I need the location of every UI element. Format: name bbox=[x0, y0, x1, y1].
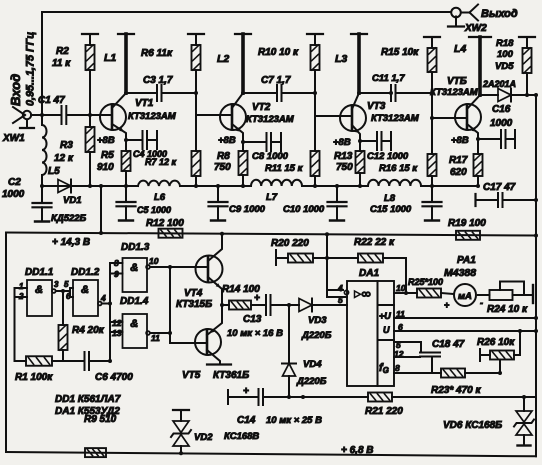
svg-text:VD6 КС168Б: VD6 КС168Б bbox=[443, 420, 502, 431]
svg-text:М4388: М4388 bbox=[444, 267, 476, 279]
svg-text:+: + bbox=[243, 386, 249, 397]
svg-text:КТ3123АМ: КТ3123АМ bbox=[128, 111, 177, 122]
svg-text:1: 1 bbox=[19, 282, 24, 291]
svg-text:R12 100: R12 100 bbox=[146, 218, 184, 229]
svg-text:XW1: XW1 bbox=[2, 133, 25, 144]
svg-text:R7 12 к: R7 12 к bbox=[145, 157, 177, 167]
svg-text:910: 910 bbox=[97, 162, 114, 173]
svg-text:VD5: VD5 bbox=[495, 61, 514, 72]
svg-text:R23* 470 к: R23* 470 к bbox=[431, 385, 481, 396]
svg-text:КТ3123АМ: КТ3123АМ bbox=[430, 87, 479, 98]
svg-text:R1 100к: R1 100к bbox=[15, 372, 53, 383]
svg-text:С13: С13 bbox=[243, 314, 262, 325]
svg-text:L8: L8 bbox=[384, 193, 396, 204]
svg-text:L3: L3 bbox=[335, 53, 347, 65]
svg-text:КТ315Б: КТ315Б bbox=[176, 299, 212, 310]
svg-text:4: 4 bbox=[100, 293, 106, 303]
svg-text:R25*100: R25*100 bbox=[408, 277, 443, 287]
svg-text:R26 10к: R26 10к bbox=[477, 337, 515, 348]
svg-text:С10 1000: С10 1000 bbox=[283, 204, 325, 215]
svg-text:КТ3123АМ: КТ3123АМ bbox=[246, 114, 295, 125]
svg-text:1000: 1000 bbox=[2, 189, 25, 200]
svg-text:R15 10к: R15 10к bbox=[381, 47, 419, 58]
svg-text:Д220Б: Д220Б bbox=[301, 330, 332, 341]
svg-text:12: 12 bbox=[112, 318, 122, 328]
svg-text:+ 6,8 В: + 6,8 В bbox=[341, 445, 374, 456]
svg-text:R18: R18 bbox=[496, 38, 514, 49]
svg-text:+U: +U bbox=[379, 311, 391, 321]
svg-text:6: 6 bbox=[398, 322, 403, 332]
svg-text:L5: L5 bbox=[48, 166, 60, 177]
svg-text:КТ3123АМ: КТ3123АМ bbox=[371, 113, 420, 124]
svg-text:R3: R3 bbox=[60, 140, 73, 151]
svg-text:R21 220: R21 220 bbox=[365, 406, 403, 417]
svg-text:12 к: 12 к bbox=[54, 153, 74, 164]
svg-text:VТБ: VТБ bbox=[447, 76, 467, 87]
svg-text:С16: С16 bbox=[492, 104, 511, 115]
svg-text:R2: R2 bbox=[56, 46, 69, 57]
svg-text:С12 1000: С12 1000 bbox=[367, 151, 409, 162]
svg-text:R20 220: R20 220 bbox=[271, 238, 309, 249]
svg-text:VT4: VT4 bbox=[184, 288, 203, 299]
svg-text:R4 20к: R4 20к bbox=[72, 325, 105, 336]
svg-text:R5: R5 bbox=[101, 150, 114, 161]
svg-text:2А201А: 2А201А bbox=[482, 79, 516, 89]
svg-text:С14: С14 bbox=[237, 415, 256, 426]
svg-text:VT1: VT1 bbox=[135, 98, 154, 109]
svg-text:R13: R13 bbox=[334, 151, 353, 162]
svg-text:L6: L6 bbox=[154, 192, 166, 203]
svg-text:VT2: VT2 bbox=[252, 102, 271, 113]
svg-text:VT5: VT5 bbox=[182, 370, 201, 381]
svg-text:U: U bbox=[383, 325, 390, 335]
svg-text:750: 750 bbox=[214, 162, 231, 173]
svg-text:С15 1000: С15 1000 bbox=[370, 204, 412, 215]
svg-text:4: 4 bbox=[337, 283, 343, 293]
svg-text:13: 13 bbox=[112, 328, 122, 338]
svg-text:R19 100: R19 100 bbox=[448, 218, 486, 229]
svg-text:10: 10 bbox=[396, 283, 406, 293]
svg-text:DD1.3: DD1.3 bbox=[121, 242, 150, 253]
svg-text:С7 1,7: С7 1,7 bbox=[261, 75, 291, 86]
svg-text:5: 5 bbox=[338, 295, 343, 305]
svg-text:6: 6 bbox=[66, 292, 71, 301]
svg-text:10 мк × 16 В: 10 мк × 16 В bbox=[227, 328, 283, 339]
svg-text:R8: R8 bbox=[217, 151, 230, 162]
svg-text:620: 620 bbox=[450, 167, 467, 178]
svg-text:DA1: DA1 bbox=[359, 268, 379, 279]
svg-text:+: + bbox=[444, 300, 450, 310]
svg-text:DD1.4: DD1.4 bbox=[120, 296, 149, 307]
svg-text:DD1.2: DD1.2 bbox=[71, 267, 100, 278]
svg-text:fG: fG bbox=[379, 362, 389, 375]
svg-text:&: & bbox=[130, 262, 138, 274]
svg-text:L1: L1 bbox=[104, 52, 116, 64]
svg-text:8: 8 bbox=[395, 363, 400, 373]
svg-text:С5 1000: С5 1000 bbox=[137, 205, 171, 215]
svg-text:С8 1000: С8 1000 bbox=[252, 151, 289, 162]
svg-text:VD1: VD1 bbox=[63, 195, 81, 206]
svg-text:10 мк × 25 В: 10 мк × 25 В bbox=[266, 415, 322, 426]
svg-text:R10 10 к: R10 10 к bbox=[258, 47, 299, 58]
svg-text:2: 2 bbox=[18, 292, 24, 301]
svg-text:+8В: +8В bbox=[97, 135, 115, 146]
svg-text:&: & bbox=[35, 284, 43, 296]
svg-text:L4: L4 bbox=[454, 43, 466, 55]
svg-text:9: 9 bbox=[114, 269, 119, 279]
svg-text:С1 47: С1 47 bbox=[38, 95, 65, 106]
svg-text:С11 1,7: С11 1,7 bbox=[372, 73, 405, 84]
svg-text:Вход: Вход bbox=[8, 74, 23, 106]
svg-text:+: + bbox=[254, 293, 260, 304]
svg-text:R6 11к: R6 11к bbox=[141, 48, 173, 59]
svg-text:R17: R17 bbox=[449, 155, 468, 166]
svg-text:КС168В: КС168В bbox=[224, 431, 259, 442]
svg-text:0,95...1,75 ГГц: 0,95...1,75 ГГц bbox=[25, 32, 37, 106]
svg-text:DD1.1: DD1.1 bbox=[25, 267, 54, 278]
svg-text:L7: L7 bbox=[266, 192, 278, 203]
svg-text:Выход: Выход bbox=[481, 8, 518, 20]
svg-text:+8В: +8В bbox=[218, 135, 236, 146]
svg-text:С17 47: С17 47 bbox=[483, 182, 516, 193]
svg-text:R16 15 к: R16 15 к bbox=[379, 163, 418, 174]
svg-text:VD2: VD2 bbox=[194, 432, 213, 443]
svg-text:-: - bbox=[480, 298, 483, 308]
svg-text:&: & bbox=[130, 318, 138, 330]
svg-text:R9 510: R9 510 bbox=[84, 414, 117, 425]
svg-text:XW2: XW2 bbox=[464, 23, 487, 34]
svg-text:РА1: РА1 bbox=[457, 255, 476, 266]
svg-text:С6 4700: С6 4700 bbox=[95, 372, 133, 383]
svg-text:+8В: +8В bbox=[451, 135, 469, 146]
svg-text:+8В: +8В bbox=[333, 137, 351, 148]
svg-text:5: 5 bbox=[64, 280, 69, 289]
svg-text:мА: мА bbox=[458, 291, 472, 302]
svg-text:100: 100 bbox=[497, 49, 514, 60]
svg-text:&: & bbox=[81, 284, 89, 296]
svg-text:11 к: 11 к bbox=[52, 58, 71, 69]
svg-text:VD4: VD4 bbox=[303, 359, 322, 370]
svg-text:Д220Б: Д220Б bbox=[296, 376, 327, 387]
svg-text:8: 8 bbox=[114, 258, 119, 268]
svg-text:R24 10 к: R24 10 к bbox=[487, 304, 528, 315]
svg-text:3: 3 bbox=[54, 280, 59, 289]
svg-text:11: 11 bbox=[151, 333, 160, 343]
svg-text:12: 12 bbox=[394, 349, 404, 359]
svg-text:1000: 1000 bbox=[490, 118, 513, 129]
svg-text:С3 1,7: С3 1,7 bbox=[143, 75, 173, 86]
svg-text:С18 47: С18 47 bbox=[432, 339, 465, 350]
svg-text:750: 750 bbox=[336, 162, 353, 173]
svg-text:VT3: VT3 bbox=[367, 101, 386, 112]
svg-text:С2: С2 bbox=[8, 177, 21, 188]
svg-text:R11 15 к: R11 15 к bbox=[265, 163, 304, 174]
svg-text:11: 11 bbox=[396, 309, 405, 319]
svg-text:10: 10 bbox=[149, 256, 159, 266]
svg-text:+ 14,3 В: + 14,3 В bbox=[52, 237, 90, 248]
svg-text:L2: L2 bbox=[217, 53, 229, 65]
svg-text:КД522Б: КД522Б bbox=[51, 213, 87, 224]
svg-text:VD3: VD3 bbox=[308, 315, 327, 326]
svg-text:R22 22 к: R22 22 к bbox=[354, 237, 395, 248]
svg-text:С9 1000: С9 1000 bbox=[229, 204, 266, 215]
svg-text:DD1 К561ЛА7: DD1 К561ЛА7 bbox=[55, 394, 121, 405]
svg-text:КТ361Б: КТ361Б bbox=[213, 370, 249, 381]
